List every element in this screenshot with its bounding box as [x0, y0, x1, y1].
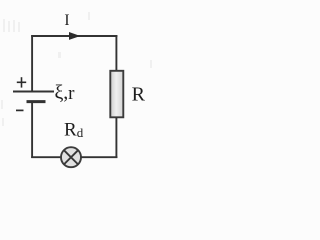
wire: left vertical upper segment — [31, 35, 33, 91]
wire: bottom horizontal right of lamp — [81, 156, 117, 158]
battery positive plate (long) — [13, 91, 54, 93]
lamp R_d (circle with X) — [61, 147, 81, 167]
current arrow — [69, 32, 80, 40]
wire: right vertical upper segment — [115, 35, 117, 71]
svg-text:ξ: ξ — [55, 81, 64, 103]
wire: left vertical lower segment — [31, 102, 33, 158]
svg-text:R: R — [64, 119, 77, 140]
wire: top horizontal — [31, 35, 117, 37]
plus sign — [17, 77, 26, 87]
svg-text:I: I — [64, 12, 69, 29]
resistor R body — [110, 71, 123, 118]
battery negative plate (short, thick) — [27, 100, 46, 103]
minus sign — [16, 109, 24, 111]
svg-text:d: d — [77, 125, 84, 140]
wire: right vertical lower segment — [115, 118, 117, 159]
svg-text:r: r — [68, 83, 75, 104]
svg-text:R: R — [132, 83, 146, 105]
wire: bottom horizontal left of lamp — [31, 156, 61, 158]
